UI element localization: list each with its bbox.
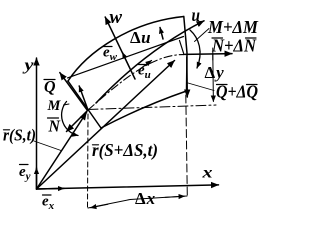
moment M arc at left cut	[62, 102, 78, 136]
position vector r(S+dS,t)	[37, 61, 175, 190]
svg-text:Δy: Δy	[205, 63, 225, 82]
w-axis	[105, 17, 135, 79]
moment M+dM arc at right cut	[190, 30, 200, 68]
svg-text:M+ΔM: M+ΔM	[207, 17, 259, 37]
dx left arrowhead	[91, 204, 109, 208]
beam left end face	[68, 81, 101, 128]
dy dimension tick top	[212, 48, 214, 60]
beam top edge	[68, 17, 184, 82]
svg-text:eu: eu	[138, 63, 151, 82]
beam bottom edge	[101, 91, 187, 128]
small arrow at right near corner	[160, 28, 163, 40]
svg-text:Δx: Δx	[135, 189, 156, 208]
leader line for M+dM label	[195, 29, 210, 42]
beam center dash-dot line	[88, 55, 184, 110]
dashed vertical from left cut to x-axis	[87, 114, 90, 207]
dy dimension arrow	[212, 54, 215, 102]
unit vector e_x on x-axis	[37, 187, 65, 190]
position vector r(S,t)	[37, 113, 87, 190]
y-axis	[36, 58, 38, 189]
chord line (upper long line of element box)	[68, 37, 184, 78]
svg-text:w: w	[110, 7, 123, 28]
svg-text:y: y	[22, 57, 35, 74]
normal force N+dN arrow at right cut	[185, 53, 232, 56]
short segment into right end node	[180, 41, 185, 55]
shear force Q at left cut	[60, 73, 88, 111]
horizontal dash-dot reference line for dy	[88, 105, 216, 110]
unit vector e_w arrowhead on w-axis	[123, 53, 130, 67]
u-axis	[96, 21, 204, 103]
svg-text:x: x	[201, 165, 212, 182]
dx dimension line with arrows	[88, 196, 187, 208]
leader line for r(S,t) label	[34, 141, 61, 151]
leader line for Q+dQ label	[188, 83, 214, 91]
svg-text:ex: ex	[42, 194, 55, 213]
leader dash for M label	[64, 104, 70, 105]
shear force Q+dQ arrow at right cut	[186, 57, 189, 97]
dashed vertical from right end to x-axis	[186, 95, 188, 196]
svg-text:r(S,t): r(S,t)	[3, 126, 36, 145]
unit vector e_u arrowhead on u-axis	[140, 61, 152, 70]
beam right end face	[184, 17, 187, 92]
svg-text:u: u	[192, 5, 201, 25]
unit vector e_y on y-axis	[36, 168, 38, 188]
svg-text:M: M	[47, 98, 62, 114]
svg-text:ey: ey	[19, 164, 31, 183]
svg-text:ew: ew	[103, 45, 118, 64]
svg-text:N: N	[48, 116, 62, 135]
svg-text:Δu: Δu	[130, 28, 151, 47]
small arrow at left cut (local w direction)	[79, 86, 88, 110]
svg-text:r(S+ΔS,t): r(S+ΔS,t)	[92, 140, 158, 160]
normal force N arrow at left cut	[67, 110, 89, 132]
x-axis	[37, 185, 219, 189]
dx right arrowhead	[165, 196, 185, 197]
